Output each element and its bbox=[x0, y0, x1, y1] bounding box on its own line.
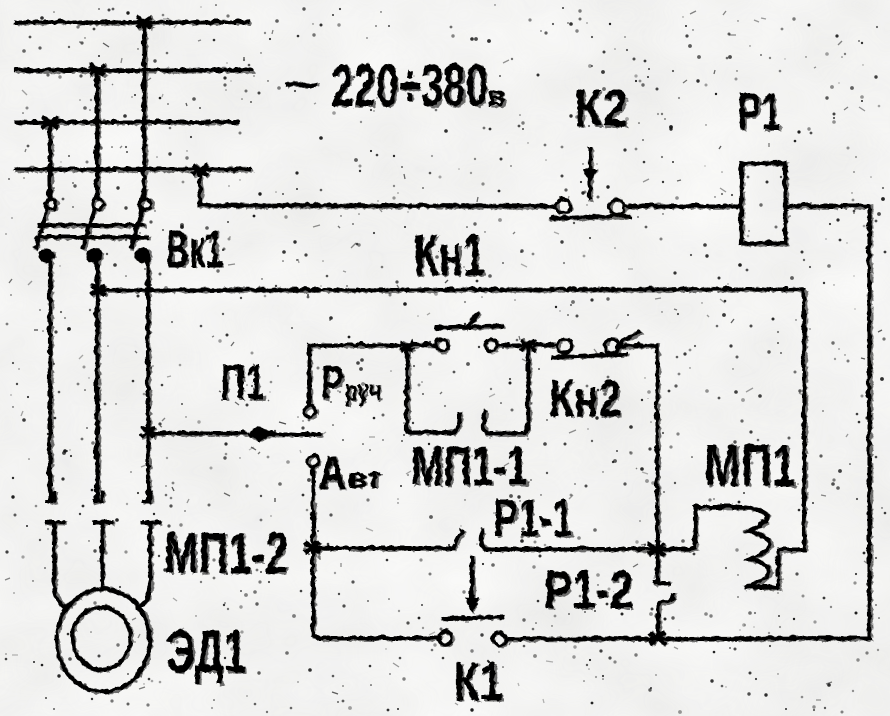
wire bottom bus left bbox=[312, 634, 439, 637]
pushbutton Кн2 start: fixed contact left bbox=[435, 338, 447, 350]
contact МП1-1 right blade bbox=[484, 412, 488, 433]
switch Вк1 pole 2 lower terminal bbox=[85, 247, 101, 261]
motor ЭД1 inner circle bbox=[72, 607, 130, 669]
wire Рруч contact up to hold circuit line bbox=[306, 344, 310, 404]
selector П1 contact Авт bbox=[308, 455, 319, 466]
wire phase line L3 bbox=[16, 119, 236, 123]
svg-text:Р1: Р1 bbox=[737, 82, 781, 142]
contact Р1-2 lower hook bbox=[657, 594, 673, 636]
wire phase line L2 bbox=[15, 67, 250, 71]
pushbutton Кн2 bridge (closed, below) bbox=[553, 354, 626, 357]
wire drop to Вк1 pole 2 bbox=[95, 70, 99, 198]
wire L4 to К2 contact bbox=[199, 169, 553, 205]
node junction L1/pole3 bbox=[137, 16, 152, 27]
node bottom junction Р1-2 bbox=[649, 632, 665, 644]
svg-text:руч: руч bbox=[345, 374, 381, 407]
motor ЭД1 outer circle bbox=[56, 588, 149, 691]
node МП1 coil junction bbox=[648, 543, 664, 555]
switch Вк1 blade 1 bbox=[36, 209, 47, 247]
wire Р1-2 branch from hold line bbox=[654, 344, 658, 548]
wire П1 selector common bbox=[148, 431, 244, 435]
pushbutton Кн2 fixed contact left bbox=[557, 339, 571, 353]
switch Вк1 mechanical link bars bbox=[36, 224, 146, 236]
wire drop to Вк1 pole 1 bbox=[48, 122, 52, 197]
limit switch К2 bridge (closed) bbox=[550, 215, 628, 217]
contactor МП1-2 main contact pole 1 upper lead bbox=[46, 492, 53, 500]
wire Р1-1 line left bbox=[311, 545, 452, 549]
contactor МП1-2 main contact pole 3 upper lead bbox=[143, 493, 150, 501]
pushbutton fixed contact right bbox=[485, 339, 497, 351]
pushbutton Кн2 fixed contact right bbox=[604, 338, 618, 352]
label ~220-380v bbox=[283, 51, 505, 118]
pushbutton К1 fixed contact left bbox=[438, 631, 451, 644]
pushbutton Кн2 actuator tick bbox=[621, 332, 639, 342]
contactor МП1-2 main contact pole 3 upper lead bbox=[142, 492, 149, 500]
node junction L3/pole1 bbox=[42, 116, 57, 127]
svg-text:Р1-2: Р1-2 bbox=[544, 560, 633, 620]
wire hold circuit top line bbox=[309, 343, 436, 347]
wire phase line L3 bbox=[17, 120, 237, 124]
switch Вк1 pole 2 lower terminal bbox=[86, 248, 102, 262]
svg-text:А: А bbox=[318, 446, 346, 498]
contact Р1-1 left blade bbox=[452, 530, 461, 547]
contactor coil МП1 bbox=[660, 507, 804, 587]
switch Вк1 blade 1 bbox=[35, 208, 46, 246]
wire Р1-1 line left bbox=[312, 546, 453, 550]
switch Вк1 mechanical link bars bbox=[37, 225, 147, 237]
svg-text:Р1-1: Р1-1 bbox=[493, 488, 573, 548]
contact Р1-2 lower hook bbox=[658, 595, 674, 637]
switch Вк1 pole 1 contact bbox=[46, 198, 57, 209]
wire МП1-1 branch bottom right bbox=[486, 345, 527, 432]
relay coil Р1 bbox=[741, 163, 785, 243]
switch Вк1 blade 2 bbox=[83, 209, 94, 247]
wire МП1-1 branch bottom right bbox=[487, 346, 528, 433]
switch Вк1 pole 3 contact bbox=[140, 198, 151, 209]
contactor МП1-2 main contact pole 1 lower lead bbox=[46, 522, 67, 607]
node МП1 coil junction bbox=[647, 542, 663, 554]
pushbutton Кн2 fixed contact right bbox=[605, 339, 619, 353]
pushbutton Кн2 start: fixed contact left bbox=[436, 339, 448, 351]
node МП1-1 branch left bbox=[401, 341, 414, 350]
wire К2 to Р1 coil bbox=[624, 203, 739, 207]
wire Кн1 line bbox=[98, 289, 804, 290]
relay coil Р1 bbox=[740, 162, 784, 242]
limit switch К2 fixed contact right bbox=[610, 199, 625, 214]
contactor coil МП1 bbox=[659, 506, 803, 586]
switch Вк1 pole 1 lower terminal bbox=[37, 247, 53, 261]
wire to Кн2 bbox=[535, 343, 557, 347]
svg-text:в: в bbox=[488, 80, 506, 113]
pushbutton К1 bridge (open, above) bbox=[443, 616, 501, 617]
wire Рруч contact up to hold circuit line bbox=[307, 345, 311, 405]
wire pole1 down to МП1-2 bbox=[47, 256, 51, 498]
limit switch К2 bridge (closed) bbox=[551, 216, 629, 218]
selector П1 moving arm arrow bbox=[245, 426, 273, 442]
wire Р1-1 line right bbox=[485, 547, 652, 551]
wire Авт contact down bbox=[310, 466, 314, 634]
contact Р1-1 left blade bbox=[453, 531, 462, 548]
contactor МП1-2 main contact pole 1 upper lead bbox=[47, 493, 54, 501]
limit switch К2 fixed contact right bbox=[609, 199, 624, 214]
pushbutton К1 fixed contact right bbox=[493, 632, 506, 645]
svg-text:ЭД1: ЭД1 bbox=[166, 618, 246, 685]
node bottom junction Р1-2 bbox=[648, 631, 664, 643]
wire right bus vertical bbox=[867, 206, 871, 638]
pushbutton К1 actuator arrow bbox=[469, 556, 473, 596]
switch Вк1 pole 1 lower terminal bbox=[38, 248, 54, 262]
wire МП1-1 branch bottom left bbox=[406, 429, 450, 433]
wire phase line L4 bbox=[16, 167, 250, 171]
svg-text:220÷380: 220÷380 bbox=[331, 52, 488, 119]
wire Кн1 line bbox=[97, 288, 803, 289]
wire drop to Вк1 pole 1 bbox=[47, 121, 51, 196]
wire Авт contact down bbox=[311, 467, 315, 635]
wire phase line L1 bbox=[15, 19, 247, 23]
wire МП1-1 branch bottom left bbox=[407, 430, 451, 434]
switch Вк1 pole 2 contact bbox=[92, 198, 103, 209]
node П1 tap on pole3 bbox=[141, 427, 155, 437]
wire phase line L4 bbox=[15, 166, 249, 170]
pushbutton К1 fixed contact left bbox=[439, 631, 452, 644]
wire Р1-2 branch from hold line bbox=[655, 345, 659, 549]
switch Вк1 pole 3 contact bbox=[141, 198, 152, 209]
switch Вк1 pole 2 contact bbox=[93, 198, 104, 209]
node Кн1 line tap bbox=[91, 285, 105, 295]
contactor МП1-2 main contact pole 2 upper lead bbox=[95, 493, 102, 501]
svg-text:Вк1: Вк1 bbox=[166, 220, 223, 279]
selector П1 moving arm arrow bbox=[244, 425, 272, 441]
contact МП1-1 (self-hold), left hook bbox=[448, 413, 458, 432]
pushbutton К1 bridge (open, above) bbox=[444, 617, 502, 618]
wire bottom bus right bbox=[506, 638, 869, 639]
pushbutton Кн2 actuator tick bbox=[620, 331, 638, 341]
svg-text:Кн1: Кн1 bbox=[414, 223, 485, 288]
node Р1-1 line tap bbox=[305, 541, 320, 552]
selector П1 contact Рруч bbox=[304, 405, 315, 416]
motor ЭД1 inner circle bbox=[71, 606, 129, 668]
label ~220-380v bbox=[284, 52, 506, 119]
contact Р1-1 right hook bbox=[480, 529, 486, 548]
contactor МП1-2 main contact pole 3 lower lead bbox=[137, 521, 158, 606]
node МП1-1 branch left bbox=[400, 340, 413, 349]
wire pole2 down to МП1-2 bbox=[94, 256, 98, 498]
node Р1-1 line tap bbox=[304, 541, 319, 552]
switch Вк1 pole 1 contact bbox=[45, 198, 56, 209]
svg-text:МП1: МП1 bbox=[704, 432, 796, 499]
contact Р1-2 upper lead bbox=[654, 549, 669, 583]
node Кн1 line tap bbox=[90, 284, 104, 294]
contact Р1-2 upper lead bbox=[653, 548, 668, 582]
switch Вк1 blade 3 bbox=[131, 209, 142, 247]
node junction L2/pole2 bbox=[90, 64, 105, 75]
switch Вк1 blade 2 bbox=[82, 208, 93, 246]
switch Вк1 pole 3 lower terminal bbox=[133, 247, 149, 261]
wire drop to Вк1 pole 3 bbox=[141, 21, 145, 197]
wire right bus vertical bbox=[866, 205, 870, 637]
contactor МП1-2 main contact pole 2 lower lead bbox=[94, 522, 111, 589]
selector П1 contact Рруч bbox=[305, 405, 316, 416]
wire between contacts bbox=[497, 342, 522, 346]
svg-text:МП1-2: МП1-2 bbox=[164, 521, 288, 586]
wire to Кн2 bbox=[534, 342, 556, 346]
contactor МП1-2 main contact pole 3 lower lead bbox=[138, 522, 159, 607]
contact Р1-1 right hook bbox=[481, 530, 487, 549]
svg-text:Кн2: Кн2 bbox=[549, 370, 621, 428]
limit switch К2 actuator arrow bbox=[587, 148, 591, 197]
contactor МП1-2 main contact pole 1 lower lead bbox=[45, 521, 66, 606]
wire Кн2 to Р1-2 branch corner bbox=[619, 345, 657, 346]
wire МП1 branch vertical bbox=[802, 289, 806, 549]
wire Р1 coil to right bus bbox=[784, 203, 868, 207]
wire hold circuit top line bbox=[308, 342, 435, 346]
pushbutton Кн2 fixed contact left bbox=[556, 338, 570, 352]
pushbutton bridge bar (open, above) bbox=[435, 325, 501, 327]
pushbutton fixed contact right bbox=[484, 338, 496, 350]
wire pole3 down to МП1-2 bbox=[146, 257, 150, 499]
wire Кн2 to Р1-2 branch corner bbox=[618, 344, 656, 345]
contact МП1-1 (self-hold), left hook bbox=[449, 414, 459, 433]
limit switch К2 fixed contact left bbox=[555, 198, 569, 212]
svg-text:К2: К2 bbox=[574, 79, 628, 138]
wire drop to Вк1 pole 2 bbox=[94, 69, 98, 197]
motor ЭД1 outer circle bbox=[57, 588, 150, 691]
pushbutton bridge bar (open, above) bbox=[436, 326, 502, 328]
svg-text:П1: П1 bbox=[220, 354, 265, 410]
contactor МП1-2 main contact pole 2 lower lead bbox=[93, 521, 110, 588]
pushbutton К1 actuator arrow bbox=[470, 557, 474, 597]
pushbutton Кн2 bridge (closed, below) bbox=[552, 353, 625, 356]
svg-text:вт: вт bbox=[348, 462, 382, 493]
pushbutton К1 fixed contact right bbox=[492, 632, 505, 645]
node МП1-1 branch right bbox=[521, 339, 536, 350]
wire К2 to Р1 coil bbox=[625, 204, 740, 208]
wire МП1-1 branch left vertical bbox=[405, 346, 409, 432]
node junction L4/control tap bbox=[192, 164, 207, 175]
wire pole1 down to МП1-2 bbox=[48, 257, 52, 499]
contact МП1-1 right blade bbox=[483, 411, 487, 432]
wire pole2 down to МП1-2 bbox=[95, 257, 99, 499]
limit switch К2 actuator arrow bbox=[588, 149, 592, 198]
wire Р1-1 line right bbox=[484, 546, 651, 550]
switch Вк1 blade 3 bbox=[130, 208, 141, 246]
wire П1 selector common bbox=[147, 430, 243, 434]
wire phase line L2 bbox=[16, 68, 251, 72]
svg-text:Р: Р bbox=[321, 357, 344, 410]
wire L4 to К2 contact bbox=[200, 170, 554, 206]
wire between contacts bbox=[498, 343, 523, 347]
contactor МП1-2 main contact pole 2 upper lead bbox=[94, 492, 101, 500]
wire МП1 branch vertical bbox=[801, 288, 805, 548]
wire phase line L1 bbox=[16, 20, 248, 24]
node П1 tap on pole3 bbox=[140, 426, 154, 436]
node junction L4/control tap bbox=[193, 164, 208, 175]
limit switch К2 fixed contact left bbox=[556, 199, 570, 213]
wire МП1-1 branch left vertical bbox=[404, 345, 408, 431]
wire bottom bus right bbox=[505, 637, 868, 638]
svg-text:К1: К1 bbox=[453, 652, 503, 712]
wire pole3 down to МП1-2 bbox=[145, 256, 149, 498]
wire bottom bus left bbox=[313, 635, 440, 638]
wire Р1 coil to right bus bbox=[785, 204, 869, 208]
switch Вк1 pole 3 lower terminal bbox=[134, 248, 150, 262]
svg-text:~: ~ bbox=[284, 60, 320, 107]
node junction L2/pole2 bbox=[89, 64, 104, 75]
node junction L3/pole1 bbox=[43, 116, 58, 127]
selector П1 contact Авт bbox=[307, 455, 318, 466]
wire drop to Вк1 pole 3 bbox=[142, 22, 146, 198]
node junction L1/pole3 bbox=[136, 16, 151, 27]
node МП1-1 branch right bbox=[520, 339, 535, 350]
